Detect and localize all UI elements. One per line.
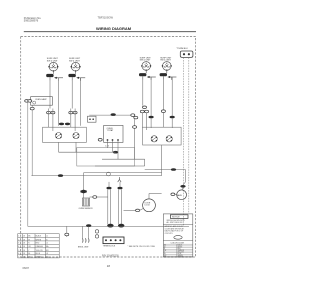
junction oval A [106, 187, 111, 190]
svg-text:YELLOW: YELLOW [36, 250, 43, 252]
svg-text:L2: L2 [46, 243, 48, 245]
power terminal block P1 [180, 51, 193, 57]
Y junction mark [118, 177, 121, 182]
block screws [95, 230, 98, 233]
connector blobs on left box top [59, 123, 64, 126]
svg-text:18: 18 [23, 250, 25, 252]
wire into bake [184, 170, 186, 183]
infinite switch LR [151, 136, 157, 142]
long bottom wire [28, 225, 189, 227]
svg-text:OVEN LAMP: OVEN LAMP [35, 98, 47, 101]
svg-text:TBF310SGW: TBF310SGW [98, 16, 114, 20]
wires from oval B down [118, 189, 120, 224]
svg-text:TERM BLOCK: TERM BLOCK [103, 246, 116, 248]
connector pair on U2 leads [69, 111, 73, 114]
svg-text:BLACK: BLACK [36, 235, 42, 238]
node on bottom wire [86, 224, 91, 227]
wire motor top [148, 194, 150, 199]
wire right box lead down [161, 145, 163, 176]
wire U1 right lead down [57, 78, 59, 126]
svg-text:1 2 3: 1 2 3 [105, 145, 109, 147]
wire oval A up [108, 182, 110, 187]
svg-text:LOCK: LOCK [145, 205, 151, 207]
junction node U3 right [149, 116, 154, 119]
svg-text:BLUE: BLUE [177, 253, 181, 255]
wire U3 into switch box [141, 113, 143, 128]
wire U2 leads to switch box [70, 109, 72, 128]
wire U4 left lead down [162, 80, 164, 110]
junction node in clock area [113, 151, 118, 154]
wire motor to left [140, 209, 143, 211]
wire U3 right lead down [150, 77, 152, 116]
left infinite switch box [43, 127, 87, 142]
svg-text:6: 6 [18, 253, 19, 255]
notes divider [163, 223, 193, 225]
svg-text:CIRCUITS.: CIRCUITS. [165, 233, 174, 235]
connector on that wire [133, 126, 137, 129]
thermostat terminals [107, 139, 109, 141]
svg-text:Y: Y [164, 252, 165, 254]
svg-text:BROWN: BROWN [177, 256, 183, 258]
connector right of sensor [93, 196, 97, 199]
svg-text:5: 5 [18, 250, 19, 252]
header rule [24, 31, 196, 33]
wire color table [18, 234, 60, 258]
wire U2 right lead down [80, 78, 82, 126]
notes divider 2 [163, 239, 193, 241]
svg-text:7: 7 [18, 256, 19, 258]
svg-text:18: 18 [23, 246, 25, 248]
crossover loop [107, 172, 111, 176]
notes title box [170, 215, 188, 219]
wire U3 right into box [150, 118, 152, 128]
wire horizontal y159 [102, 158, 145, 160]
svg-text:* SEE NOTE ON COLOR CODE: * SEE NOTE ON COLOR CODE [128, 246, 156, 248]
oven sensor coil [82, 198, 89, 206]
svg-text:18: 18 [107, 264, 111, 268]
infinite switch RF [73, 133, 79, 139]
connector left of motor [136, 209, 140, 212]
svg-text:P/N 316455200: P/N 316455200 [102, 254, 119, 257]
door lock motor circle [143, 199, 156, 212]
node above bake [180, 185, 185, 188]
wire from lamp connector down [27, 102, 29, 226]
connector below lamp box [30, 107, 34, 110]
wire U1 leads to switch box [48, 109, 50, 128]
color code table [163, 244, 193, 257]
svg-text:BK: BK [164, 245, 166, 247]
publication number text [24, 16, 42, 23]
horizontal bus wire [89, 114, 135, 116]
svg-text:18: 18 [23, 243, 25, 245]
bake element circle [177, 190, 187, 200]
svg-text:OVEN SENSOR: OVEN SENSOR [79, 208, 94, 210]
junction node on y169.5 [171, 168, 176, 171]
surface unit SW LR (U3) [139, 57, 156, 80]
cabinet dashed border [21, 36, 196, 257]
notes legend box [163, 214, 193, 257]
svg-text:YELLOW: YELLOW [177, 252, 184, 254]
clock timer box [77, 148, 135, 166]
connector on U4 left wire [161, 110, 165, 113]
wire bus down right [134, 119, 136, 159]
svg-text:L1: L1 [46, 236, 48, 238]
oven lamp box [31, 97, 53, 106]
svg-text:BL: BL [28, 253, 30, 255]
svg-text:NOTICE: NOTICE [172, 217, 180, 219]
connector pair on U1 leads [47, 111, 51, 114]
svg-text:WHITE: WHITE [177, 246, 182, 248]
terminal ovals above block [107, 224, 113, 228]
wire left box leads down [58, 142, 60, 152]
svg-text:06/97: 06/97 [23, 266, 30, 270]
relay box on bus [88, 116, 97, 122]
connector cluster right end of bus [131, 114, 135, 117]
infinite switch LF [56, 133, 62, 139]
svg-text:BROIL UNIT: BROIL UNIT [78, 247, 89, 249]
connector left of thermostat [98, 139, 102, 142]
junction oval B [117, 187, 122, 190]
svg-text:ORANGE: ORANGE [36, 245, 44, 248]
surface unit SW LF (U1) [46, 58, 63, 81]
wire L1 from terminal block down [182, 57, 184, 226]
broil unit coil [83, 238, 90, 242]
wires from oval A down [107, 189, 109, 224]
oven thermostat box [104, 125, 123, 142]
svg-text:GREEN: GREEN [36, 256, 43, 258]
svg-text:3: 3 [18, 243, 19, 245]
infinite switch RR [166, 136, 172, 142]
wire U2 left lead down [71, 81, 73, 109]
wire U3 left lead down [142, 80, 144, 106]
wire horizontal y152 [59, 151, 116, 153]
svg-text:WHITE: WHITE [36, 239, 42, 241]
spade terminal on sensor wire [80, 190, 86, 194]
svg-text:WIRING DIAGRAM: WIRING DIAGRAM [96, 26, 132, 31]
svg-text:*TERM BLK: *TERM BLK [177, 48, 189, 50]
wire horizontal y166 [95, 165, 145, 167]
wire lamp box down to bus [31, 105, 33, 107]
connector stack on U3 wire [143, 106, 147, 109]
svg-text:ALL SWITCHES OFF: ALL SWITCHES OFF [167, 221, 183, 224]
svg-text:18: 18 [23, 253, 25, 255]
surface unit SW RF (U2) [68, 58, 85, 81]
bottom terminal block [103, 237, 124, 244]
svg-text:BAKE: BAKE [177, 194, 183, 197]
legend connector symbol [174, 236, 182, 240]
thermostat lead down [112, 141, 114, 152]
ground connector oval [65, 233, 69, 236]
wire N from terminal block down [188, 57, 190, 212]
wire down to sensor [83, 173, 85, 198]
stub to ground connector [66, 226, 68, 237]
wire horizontal y169.5 to bake [145, 169, 186, 171]
svg-text:5995268976: 5995268976 [24, 19, 39, 23]
svg-text:18: 18 [23, 256, 25, 258]
wire U4 right lead down [171, 77, 173, 116]
surface unit SW RR (U4) [160, 57, 177, 80]
wire horizontal y175.6 [31, 175, 161, 177]
bake unit leads [82, 226, 84, 238]
wire sensor to right [90, 196, 93, 198]
wire U4 right into box [171, 118, 173, 128]
wire horizontal y172.6 [84, 172, 162, 174]
svg-text:4: 4 [18, 246, 19, 248]
svg-text:BL: BL [164, 253, 166, 255]
svg-text:2: 2 [18, 239, 19, 241]
wire U4 left into box [162, 113, 164, 128]
svg-text:18: 18 [23, 239, 25, 241]
wire U1 left lead down [49, 81, 51, 109]
svg-text:18: 18 [23, 236, 25, 238]
right infinite switch box [143, 127, 182, 145]
oven lamp connector pair [25, 100, 29, 103]
svg-text:T'STAT: T'STAT [107, 129, 114, 132]
svg-text:1: 1 [18, 236, 19, 238]
connector on y175.6 [58, 174, 63, 177]
connector on bus [111, 113, 116, 116]
connector left of bake [171, 193, 175, 196]
junction node U4 right [170, 116, 175, 119]
